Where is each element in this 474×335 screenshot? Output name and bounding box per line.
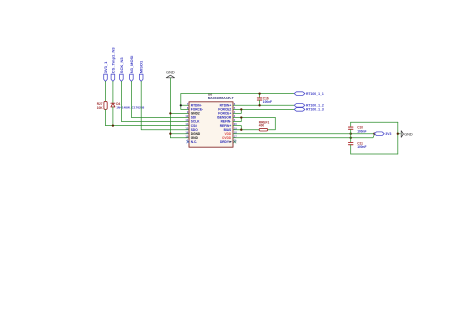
port CS_Tmp1_N3 — [110, 47, 115, 82]
no-connect N.C. — [187, 141, 190, 144]
svg-text:GND: GND — [404, 132, 413, 136]
wire port3 vertical — [121, 81, 189, 121]
wire cap branch between rails — [350, 134, 352, 138]
port RT100_1_3 — [294, 108, 324, 112]
port SCK_N3 — [119, 57, 124, 82]
capacitor C10 — [349, 122, 367, 134]
wire box top — [351, 121, 398, 123]
junction D4/CS — [112, 124, 114, 126]
wire BIAS row — [233, 129, 259, 131]
wire RTDIN- row — [181, 104, 189, 106]
svg-text:RT100_1_1: RT100_1_1 — [306, 92, 324, 96]
svg-text:1N4148W_C176288: 1N4148W_C176288 — [116, 105, 144, 109]
junction GND stub — [397, 133, 399, 135]
junction VDD/cap branch — [350, 133, 352, 135]
wire rail A (RTD- net, top) — [181, 93, 294, 95]
junction C16 bottom — [258, 104, 260, 106]
svg-text:3V3_1: 3V3_1 — [103, 61, 108, 73]
wire DGND row — [170, 133, 189, 135]
ground (right) — [401, 131, 413, 138]
port MISO1 — [139, 60, 144, 81]
port RT100_1_2 — [294, 104, 324, 108]
wire GND vertical — [169, 78, 171, 138]
port 3V1 — [103, 61, 108, 82]
svg-text:N3_MOSI: N3_MOSI — [129, 56, 134, 74]
junction C16 top — [258, 92, 260, 94]
capacitor C11 — [349, 138, 367, 154]
svg-text:DRDY: DRDY — [220, 140, 230, 144]
junction ISENSOR/REFIN- — [240, 116, 242, 118]
svg-text:MISO1: MISO1 — [139, 60, 144, 73]
resistor RREF1 — [259, 121, 270, 132]
svg-text:10K: 10K — [97, 106, 104, 110]
power port 3V3 — [374, 132, 391, 136]
resistor R27 — [97, 101, 107, 109]
junction 3V3 port — [373, 133, 375, 135]
wire REFIN- stub — [233, 118, 241, 122]
wire GND row — [170, 137, 189, 139]
wire port4 vertical — [131, 81, 189, 117]
wire box right — [397, 122, 399, 154]
junction FORCE2/FORCE+ — [240, 108, 242, 110]
wire VDD rail — [233, 133, 374, 135]
svg-text:SCK_N3: SCK_N3 — [119, 57, 124, 74]
wire CS rail — [106, 125, 190, 127]
IC U6 pin numbers — [185, 102, 237, 142]
wire FORCE- row — [181, 108, 189, 110]
junction BIAS/REFIN+ — [240, 129, 242, 131]
pin DRDY output marker — [229, 141, 232, 143]
ground — [166, 71, 175, 78]
wire port1 to R27 — [105, 81, 107, 101]
junction RTDIN- — [180, 104, 182, 106]
svg-text:GND: GND — [166, 71, 175, 75]
wire GND2 row — [170, 112, 189, 114]
wire rail C (FORCE2) — [233, 108, 294, 110]
wire SENSOR rail — [233, 117, 275, 119]
wire REFIN+ stub — [233, 126, 241, 130]
wire R27 to CS rail — [105, 109, 107, 125]
IC U6 MAX31865AAP+T body — [189, 102, 233, 147]
svg-text:N.C.: N.C. — [191, 140, 197, 144]
wire OVDD rail — [233, 134, 374, 138]
IC U6 right pin names — [217, 104, 232, 145]
junction OVDD/cap branch — [350, 137, 352, 139]
svg-text:100nF: 100nF — [263, 100, 272, 104]
svg-text:RT100_1_3: RT100_1_3 — [306, 108, 324, 112]
wire box bottom — [351, 153, 398, 155]
svg-text:100nF: 100nF — [357, 145, 366, 149]
junction DGND — [169, 133, 171, 135]
wire rail B (RTDIN+) — [233, 104, 294, 106]
port MOSI_N3 — [129, 56, 134, 82]
svg-text:400: 400 — [259, 124, 265, 128]
no-connect DRDY — [233, 141, 236, 144]
svg-text:CS_Tmp1_N3: CS_Tmp1_N3 — [110, 47, 115, 74]
diode D4 — [111, 102, 145, 110]
svg-text:100nF: 100nF — [357, 129, 366, 133]
port RT100_1_1 — [294, 92, 324, 96]
wire RREF right side — [268, 118, 276, 130]
wire RTDIN- vertical — [180, 94, 182, 110]
IC U6 left pin names — [191, 104, 203, 145]
wire FORCE+ stub — [233, 109, 241, 113]
junction GND2 — [169, 112, 171, 114]
wire port2 to D4 — [112, 81, 114, 103]
wire GND stub right — [398, 133, 400, 135]
wire port5 vertical — [141, 81, 189, 129]
svg-text:MAX31865AAP+T: MAX31865AAP+T — [208, 96, 234, 100]
capacitor C16 — [257, 94, 272, 106]
wire D4 to CS rail — [112, 107, 114, 126]
svg-text:3V3: 3V3 — [385, 132, 391, 136]
